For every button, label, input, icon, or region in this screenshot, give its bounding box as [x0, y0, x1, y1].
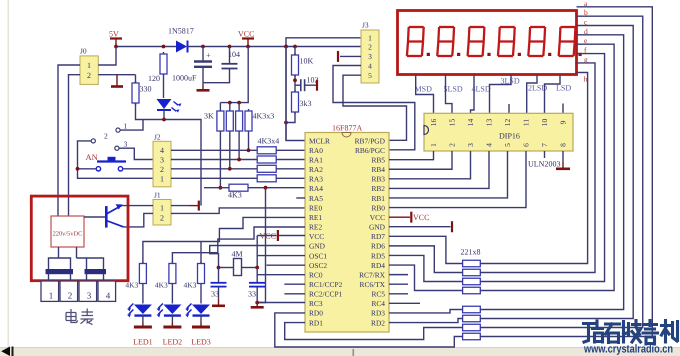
svg-text:1: 1: [124, 122, 128, 131]
svg-text:VCC: VCC: [370, 213, 385, 222]
wire 3k3 bottom to MCLR net: [286, 112, 295, 123]
wire GND to crystal: [210, 246, 305, 268]
svg-text:LED1: LED1: [133, 338, 153, 347]
wire J3 pin1 MCLR net: [286, 38, 361, 141]
crystal 4M: [234, 259, 242, 276]
svg-text:5V: 5V: [109, 30, 119, 39]
svg-text:J1: J1: [154, 191, 161, 200]
svg-text:VCC: VCC: [309, 232, 324, 241]
wire J0 pin2 to 330: [98, 74, 135, 76]
ground at 33 right: [256, 303, 258, 307]
wire 3LSD to DIP16 pin13: [490, 75, 512, 114]
left edge strip: [8, 0, 10, 348]
VCC label right of U1: [389, 216, 410, 218]
junction: [264, 186, 268, 190]
wires transformer bars to terminal box: [48, 274, 50, 281]
ground at LED3: [200, 323, 202, 327]
IC U1 left pin stubs: [296, 197, 305, 199]
junction: [228, 101, 232, 105]
svg-text:GND: GND: [309, 242, 326, 251]
scrollbar arrow bottom-left: [1, 347, 10, 356]
wire: [229, 103, 231, 109]
svg-text:4K3x3: 4K3x3: [253, 112, 275, 121]
resistor 4K3 at LED2: [171, 262, 173, 264]
wire segment e: [480, 44, 614, 290]
resistor 3k3: [294, 90, 296, 92]
svg-text:J3: J3: [362, 21, 369, 30]
transformer box 220v/5vDC: [51, 216, 84, 247]
wire J3 pin4 to RB6/PGC: [333, 66, 415, 150]
svg-text:DIP16: DIP16: [499, 132, 520, 141]
wire RE2 to LED2 staircase: [172, 227, 305, 263]
svg-text:2: 2: [448, 143, 457, 147]
svg-text:9: 9: [559, 120, 568, 124]
wire 3K bottom to RA4 row: [219, 133, 221, 188]
wire segment f: [480, 54, 604, 282]
wire MSD to DIP16 pin16: [416, 75, 434, 114]
svg-text:4: 4: [485, 143, 494, 147]
wire DIP16 pin12 stub: [508, 104, 510, 113]
LED arrows LED2: [158, 304, 163, 315]
wire segment b: [480, 16, 642, 327]
svg-text:1: 1: [429, 143, 438, 147]
svg-text:RB7/PGD: RB7/PGD: [355, 136, 386, 145]
resistor 4K3 at LED3: [200, 262, 202, 264]
wire DIP16 pin8: [562, 151, 564, 162]
wire 4K3x3c to RA0 row: [248, 133, 250, 150]
wire to LED3: [200, 286, 202, 304]
svg-text:1: 1: [87, 61, 91, 70]
svg-text:OSC1: OSC1: [309, 251, 327, 260]
ground at 33 left: [218, 300, 220, 305]
wire to RA1: [276, 159, 305, 161]
svg-text:104: 104: [228, 50, 240, 59]
transistor Q1: [105, 206, 108, 228]
svg-text:14: 14: [466, 119, 475, 127]
wire RD0 to row8: [275, 313, 463, 347]
svg-text:RB4: RB4: [371, 165, 385, 174]
wire 10K to 3k3: [294, 75, 296, 92]
wire 4K3x3a to RA2 row: [229, 133, 231, 169]
svg-text:RC5: RC5: [371, 290, 385, 299]
wire winding right leg b: [86, 258, 88, 270]
svg-text:4K3: 4K3: [228, 191, 242, 200]
wire winding left legs: [49, 258, 71, 270]
wire to RC3: [257, 302, 305, 304]
svg-text:RC6/TX: RC6/TX: [360, 280, 386, 289]
wire 5LSD to DIP16 pin15: [446, 75, 453, 114]
svg-text:5: 5: [503, 143, 512, 147]
svg-text:AN: AN: [86, 152, 98, 162]
svg-text:ULN2003: ULN2003: [528, 160, 560, 169]
LED LED3: [192, 305, 210, 315]
svg-text:RC0: RC0: [309, 270, 323, 279]
junction: [284, 45, 288, 49]
wire J2 pin2 to RA2: [171, 168, 257, 170]
VCC power symbol: [242, 37, 254, 39]
junction: [76, 167, 80, 171]
junction: [237, 158, 241, 162]
wire J0 pin2 to transformer: [69, 75, 81, 216]
LED arrows LED1: [129, 304, 134, 315]
wire to RA0: [276, 149, 305, 151]
svg-text:3: 3: [160, 156, 164, 165]
svg-text:33: 33: [248, 290, 256, 299]
resistor 4K3x4 4: [257, 175, 276, 182]
IC U1 right pin stubs: [389, 274, 408, 276]
wire RD7 to row1: [389, 236, 463, 263]
wire LED2 cathode: [171, 316, 173, 323]
wire to RA2: [276, 168, 305, 170]
capacitor 1000uF: [202, 47, 204, 61]
svg-text:RA5: RA5: [309, 194, 323, 203]
svg-text:3: 3: [466, 143, 475, 147]
wire winding right legs: [77, 258, 104, 270]
svg-text:5LSD: 5LSD: [444, 85, 463, 94]
svg-text:10: 10: [540, 119, 549, 127]
resistor 4K3x4 2: [257, 156, 276, 163]
svg-text:1: 1: [160, 175, 164, 184]
svg-text:www.crystalradio.cn: www.crystalradio.cn: [583, 344, 673, 356]
wire RD6 to row2: [389, 246, 463, 273]
wires DIP16 pins1-6 to RB5-RB0: [389, 151, 434, 160]
svg-text:RB5: RB5: [371, 155, 385, 164]
wire RD3 to row5: [389, 310, 463, 313]
svg-text:RC3: RC3: [309, 299, 323, 308]
svg-text:2: 2: [87, 71, 91, 80]
resistor 4K3 at LED1: [142, 262, 144, 264]
wire LED3 cathode: [200, 316, 202, 323]
svg-text:3: 3: [368, 52, 372, 61]
svg-text:RC7/RX: RC7/RX: [359, 270, 386, 279]
resistor 4K3x3 b: [238, 109, 240, 111]
resistor 221x8 row4: [463, 287, 481, 294]
capacitor 33 right: [256, 268, 258, 283]
ground at 1000uF: [202, 85, 204, 90]
resistor 221x8 row5: [463, 306, 481, 313]
junction: [219, 186, 223, 190]
svg-text:33: 33: [211, 290, 219, 299]
wire VCC rail: [188, 46, 362, 48]
wire OSC1: [257, 255, 305, 257]
svg-text:RB1: RB1: [371, 194, 385, 203]
wire GND right of U1: [389, 226, 451, 228]
resistor 4K3x4 1: [257, 147, 276, 154]
svg-text:1: 1: [160, 204, 164, 213]
wire contact3 to J2 pin3: [119, 148, 153, 159]
svg-text:RE2: RE2: [309, 223, 322, 232]
wire LSD to DIP16 pin10: [545, 75, 561, 114]
svg-text:RB0: RB0: [371, 203, 385, 212]
svg-text:RD5: RD5: [371, 251, 385, 260]
junction: [293, 45, 297, 49]
LED LED2: [163, 305, 181, 315]
svg-text:b: b: [584, 8, 588, 17]
junction: [246, 45, 250, 49]
power bar at J3 pin3: [337, 51, 339, 62]
wire 3K top: [219, 103, 221, 109]
wire to LED2: [171, 286, 173, 304]
resistor 120: [163, 52, 165, 54]
power bar VCC at U1: [277, 230, 279, 241]
junction: [284, 121, 288, 125]
resistor 4K3: [229, 184, 248, 191]
svg-text:13: 13: [485, 119, 494, 127]
wire 5V rail left: [116, 46, 176, 48]
junction: [201, 45, 205, 49]
wire RD5 to row3: [389, 255, 463, 281]
power bar GND right: [451, 221, 453, 232]
wire VCC row left: [257, 235, 276, 237]
capacitor 102: [295, 84, 301, 86]
wire segment g: [480, 63, 595, 273]
resistor 4K3x3 a: [229, 109, 231, 111]
svg-text:d: d: [584, 27, 588, 36]
svg-text:RA0: RA0: [309, 146, 323, 155]
svg-text:12: 12: [503, 118, 512, 126]
svg-text:RA1: RA1: [309, 155, 323, 164]
wire segment c: [480, 26, 633, 319]
svg-text:RC2/CCP1: RC2/CCP1: [309, 290, 343, 299]
svg-text:RD3: RD3: [371, 309, 385, 318]
junction: [247, 148, 251, 152]
wire J0 pin1 to 5V: [98, 47, 116, 66]
svg-text:4K3x4: 4K3x4: [258, 137, 280, 146]
wire AN left: [78, 168, 96, 170]
wire LED1 cathode: [142, 316, 144, 323]
ground at LED1: [142, 323, 144, 327]
wire OSC2: [267, 264, 306, 266]
svg-text:5: 5: [368, 71, 372, 80]
junction: [217, 266, 221, 270]
wire 4LSD to DIP16 pin14: [471, 75, 475, 114]
wire OSC1 vertical: [256, 236, 258, 268]
ground at J0 pin2: [116, 75, 118, 86]
wire transistor collector to J1 pin1: [123, 205, 154, 207]
svg-text:LED2: LED2: [163, 338, 183, 347]
junction: [255, 301, 259, 305]
wire MCLR vertical: [285, 47, 287, 141]
resistor 221x8 row3: [463, 278, 481, 285]
svg-text:4K3: 4K3: [155, 281, 168, 290]
junction: [237, 101, 241, 105]
svg-text:16: 16: [429, 119, 438, 127]
svg-text:RE0: RE0: [309, 203, 322, 212]
svg-text:2: 2: [160, 214, 164, 223]
svg-text:1: 1: [49, 291, 54, 301]
svg-text:10K: 10K: [300, 57, 314, 66]
svg-text:2: 2: [368, 43, 372, 52]
svg-text:4M: 4M: [232, 250, 243, 259]
svg-text:RD4: RD4: [371, 261, 385, 270]
scrollbar tick: [353, 349, 355, 356]
svg-text:RA2: RA2: [309, 165, 323, 174]
svg-text:J2: J2: [154, 133, 161, 142]
big red box meter: [31, 196, 128, 281]
svg-text:+: +: [206, 50, 211, 60]
svg-text:2: 2: [104, 132, 108, 141]
wire RA4 row left: [204, 187, 229, 189]
svg-text:120: 120: [148, 74, 160, 83]
wire RD1 to row7: [285, 323, 463, 340]
capacitor 33 left: [218, 268, 220, 283]
svg-text:h: h: [584, 75, 588, 84]
7-segment digits 8.8.8.8.8.8.: [407, 27, 424, 56]
resistor 221x8 row8: [463, 333, 481, 340]
push button AN: [97, 160, 126, 162]
watermark crystalradio logo: [584, 321, 678, 345]
resistor 221x8 row1: [463, 260, 481, 267]
svg-text:VCC: VCC: [238, 30, 254, 39]
wire staircase branch LED3: [200, 242, 202, 263]
svg-text:RC1/CCP2: RC1/CCP2: [309, 280, 343, 289]
svg-text:1: 1: [368, 34, 372, 43]
wire J3 pin3: [340, 55, 361, 57]
wire J3 pin5 to RB7/PGD: [343, 75, 407, 140]
svg-text:4: 4: [368, 61, 372, 70]
wire 4K3x3b to RA1 row: [238, 133, 240, 160]
svg-text:RA3: RA3: [309, 175, 323, 184]
wire DIP16 pin9 stub: [562, 104, 564, 114]
wire J0 pin1 to transformer: [58, 65, 80, 216]
wire RA4 node down to RC3 row: [257, 188, 265, 303]
wire: [238, 103, 240, 109]
svg-text:RB6/PGC: RB6/PGC: [355, 146, 385, 155]
label dianbiao meter: [66, 309, 94, 325]
svg-text:3k3: 3k3: [300, 99, 312, 108]
wire winding left stem: [58, 247, 60, 258]
resistor 4K3x4 3: [257, 165, 276, 172]
svg-text:OSC2: OSC2: [309, 261, 327, 270]
diode 1N5817: [176, 41, 187, 53]
svg-text:2: 2: [68, 291, 73, 301]
junction: [228, 167, 232, 171]
svg-text:7: 7: [540, 143, 549, 147]
junction: [162, 118, 166, 122]
LED arrows LED3: [187, 304, 192, 315]
svg-text:3: 3: [124, 140, 128, 149]
resistor 330: [135, 81, 137, 83]
resistor 221x8 row6: [463, 315, 481, 322]
wire AN to J2 pin2: [123, 168, 153, 170]
svg-text:3K: 3K: [204, 112, 214, 121]
svg-text:1N5817: 1N5817: [168, 27, 194, 36]
svg-text:g: g: [584, 55, 588, 64]
wire DIP16 pin7 stub: [544, 151, 546, 158]
svg-text:MCLR: MCLR: [309, 136, 330, 145]
svg-text:16F877A: 16F877A: [332, 124, 362, 133]
svg-text:RB2: RB2: [371, 184, 385, 193]
contact 2 circle: [91, 139, 95, 143]
wire RE1 to LED1 staircase: [143, 217, 305, 263]
junction: [228, 45, 232, 49]
contact 1 circle: [116, 128, 120, 132]
ground at DIP16 pin8: [562, 162, 564, 168]
wire J2 pin4 to RA0: [171, 149, 257, 151]
contact 3 circle: [115, 146, 119, 150]
svg-text:VCC: VCC: [413, 213, 429, 222]
power tick J1 pin1: [190, 205, 199, 207]
svg-text:220v/5vDC: 220v/5vDC: [53, 231, 83, 238]
LED LED1: [134, 305, 152, 315]
svg-text:11: 11: [522, 119, 531, 126]
svg-text:J0: J0: [80, 47, 87, 56]
svg-text:LED3: LED3: [191, 338, 211, 347]
junction: [255, 266, 259, 270]
transformer bar left: [46, 270, 73, 274]
junction: [293, 78, 297, 82]
svg-text:RD7: RD7: [371, 232, 385, 241]
wire contact1: [120, 120, 143, 131]
svg-text:GND: GND: [369, 223, 386, 232]
junction: [162, 45, 166, 49]
svg-text:RD0: RD0: [309, 309, 323, 318]
svg-text:1000uF: 1000uF: [172, 74, 197, 83]
capacitor 104: [229, 47, 231, 64]
svg-text:RD1: RD1: [309, 318, 323, 327]
IC U2 DIP16 ULN2003: [424, 113, 573, 151]
svg-text:15: 15: [448, 119, 457, 127]
bottom toolbar strip: [0, 348, 680, 356]
wire J2 pin3 to RA1: [171, 159, 257, 161]
wire 120 to LED: [163, 76, 165, 98]
svg-text:4K3: 4K3: [125, 281, 138, 290]
LED arrows: [172, 102, 179, 112]
wire segment d: [480, 35, 623, 310]
svg-text:RB3: RB3: [371, 175, 385, 184]
resistor 10K: [294, 53, 296, 55]
resistor 3K: [219, 109, 221, 111]
wire to RA3: [276, 177, 305, 179]
svg-text:221x8: 221x8: [461, 248, 481, 257]
wire J2 pin1 to RA3: [171, 177, 257, 179]
svg-text:4: 4: [106, 291, 111, 301]
svg-text:RE1: RE1: [309, 213, 322, 222]
wire to LED1: [142, 286, 144, 304]
wire RD2 to row6: [389, 319, 463, 323]
wire winding right stem: [76, 247, 78, 258]
wire 330 LED junction to J1: [136, 103, 202, 206]
wire VCC to resistor tops: [220, 47, 248, 103]
7-segment display frame: [398, 11, 577, 75]
wire segment a: [480, 7, 652, 337]
svg-text:4K3: 4K3: [184, 281, 197, 290]
svg-text:LSD: LSD: [556, 84, 571, 93]
transformer bar right: [85, 270, 106, 274]
wire segment h: [480, 73, 587, 264]
power bar at 102: [316, 80, 318, 91]
svg-text:MSD: MSD: [415, 85, 433, 94]
junction: [114, 45, 118, 49]
wire J1 pin1: [171, 205, 190, 207]
svg-text:8: 8: [559, 143, 568, 147]
svg-text:4: 4: [160, 146, 164, 155]
wire VCC to chip: [279, 235, 305, 237]
resistor 221x8 row2: [463, 269, 481, 276]
wire J1 pin2 to transistor: [124, 213, 154, 227]
wire RC0 stub: [257, 274, 305, 276]
svg-text:2: 2: [160, 165, 164, 174]
junction: [284, 45, 288, 49]
svg-text:330: 330: [140, 85, 152, 94]
wire transistor base: [84, 216, 106, 218]
ground at LED2: [171, 323, 173, 327]
svg-text:6: 6: [522, 143, 531, 147]
wire 2LSD to DIP16 pin11: [527, 75, 537, 114]
svg-text:3: 3: [87, 291, 92, 301]
wire contact2 to J2 pin1: [78, 141, 154, 178]
wire 10K top: [294, 47, 296, 56]
